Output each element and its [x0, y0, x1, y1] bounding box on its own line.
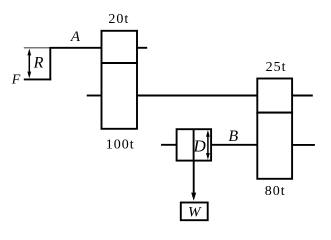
svg-text:80t: 80t: [265, 184, 286, 199]
shaft A: [50, 47, 101, 49]
weight box W: [181, 203, 208, 221]
gear 20t box: [102, 31, 138, 63]
svg-text:A: A: [70, 29, 81, 45]
drum box: [177, 129, 212, 160]
gear 100t box: [102, 63, 138, 129]
svg-text:20t: 20t: [108, 12, 129, 27]
dimension arrow R (double-headed): [27, 49, 31, 79]
drum divider / rope line: [193, 129, 195, 160]
rope to weight: [193, 161, 195, 196]
shaft B: [161, 144, 257, 146]
svg-text:25t: 25t: [266, 60, 287, 75]
rope arrowhead: [191, 193, 196, 201]
gear 25t box: [257, 79, 292, 113]
svg-text:F: F: [11, 73, 21, 88]
dimension arrow D (double-headed): [206, 130, 210, 160]
shaft B right stub: [292, 144, 315, 146]
shaft A right stub: [137, 47, 147, 49]
dimension reference line (crank radius datum): [24, 47, 51, 49]
svg-text:R: R: [33, 55, 44, 72]
svg-text:D: D: [193, 137, 207, 156]
crank handle: [24, 78, 51, 80]
crank arm: [49, 47, 51, 80]
shaft C right stub: [292, 95, 313, 97]
svg-text:100t: 100t: [106, 137, 135, 152]
gear 80t box: [257, 113, 292, 179]
svg-text:B: B: [228, 128, 238, 145]
shaft C middle segment: [137, 95, 257, 97]
svg-text:W: W: [188, 204, 202, 220]
shaft C left stub: [87, 95, 102, 97]
